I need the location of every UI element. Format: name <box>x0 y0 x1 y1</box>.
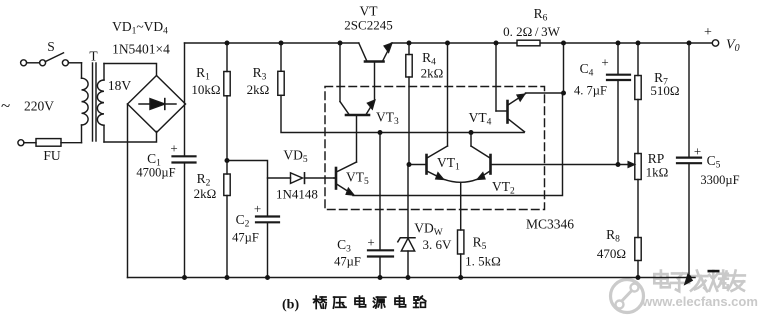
diode VD5 1N4148 <box>276 148 334 202</box>
svg-text:47µF: 47µF <box>232 231 259 245</box>
watermark text dianzifashaoyou <box>654 271 669 288</box>
resistor R4 2k <box>406 43 444 165</box>
svg-text:+: + <box>367 235 374 250</box>
wire top rail left segment <box>185 42 359 44</box>
wire R1/R2 junction to VD5 and C2 <box>227 161 268 217</box>
resistor R5 1.5k <box>458 230 501 278</box>
switch S <box>27 39 69 66</box>
transistor VT5 <box>334 162 369 195</box>
wire VT4 emitter node up to top rail <box>563 43 565 93</box>
svg-text:47µF: 47µF <box>334 255 361 269</box>
wire R7 to RP <box>637 100 639 154</box>
resistor R3 2k <box>247 43 285 97</box>
label VD1~VD4 1N5401x4 <box>112 19 170 57</box>
wire fuse to transformer primary <box>61 142 82 144</box>
svg-text:4. 7µF: 4. 7µF <box>574 84 607 98</box>
transistor VT 2SC2245 <box>344 4 392 62</box>
wire VT4 base up to top rail <box>495 43 497 111</box>
svg-text:2kΩ: 2kΩ <box>421 66 444 81</box>
svg-text:10kΩ: 10kΩ <box>191 82 220 97</box>
wire VT1 VT2 common emitter down to R5 <box>460 182 462 230</box>
ground minus mark bottom right <box>708 270 720 273</box>
svg-text:FU: FU <box>43 148 61 163</box>
capacitor C5 3300uF <box>677 43 740 284</box>
resistor R6 0.2ohm 3W <box>503 6 560 46</box>
svg-text:S: S <box>47 39 55 54</box>
svg-text:2SC2245: 2SC2245 <box>344 18 392 33</box>
svg-text:1kΩ: 1kΩ <box>646 165 669 180</box>
transistor VT1 <box>409 146 477 182</box>
wire VT base down to VT3 emitter <box>374 63 376 100</box>
svg-text:3. 6V: 3. 6V <box>423 237 453 252</box>
svg-text:+: + <box>694 144 701 159</box>
wire ground rail <box>128 277 696 279</box>
svg-text:470Ω: 470Ω <box>597 246 626 261</box>
wire secondary bottom to bridge bottom vertex <box>104 132 157 143</box>
node Vo output terminal <box>704 25 740 54</box>
wire VT2 base to RP wiper with arrow <box>492 162 635 168</box>
bridge rectifier VD1-VD4 diamond <box>128 76 186 133</box>
potentiometer RP 1k <box>635 151 669 180</box>
svg-text:+: + <box>254 201 261 216</box>
svg-text:0. 2Ω / 3W: 0. 2Ω / 3W <box>503 24 560 39</box>
svg-text:2kΩ: 2kΩ <box>194 186 217 201</box>
svg-text:1N5401×4: 1N5401×4 <box>112 42 170 57</box>
wire VT1 collector to top rail <box>447 43 449 146</box>
node AC input terminal top <box>21 60 27 66</box>
wire top rail right segment to Vo <box>392 42 713 44</box>
transformer T primary winding <box>82 63 89 143</box>
svg-text:2kΩ: 2kΩ <box>247 82 270 97</box>
resistor R2 2k <box>194 171 231 278</box>
capacitor C2 47uF <box>232 201 279 278</box>
svg-text:1. 5kΩ: 1. 5kΩ <box>465 254 501 269</box>
svg-text:+: + <box>704 25 712 40</box>
capacitor C3 47uF <box>334 133 393 278</box>
svg-text:VT: VT <box>360 4 379 19</box>
svg-text:220V: 220V <box>24 99 54 114</box>
wire bridge left vertex to ground rail <box>127 104 129 278</box>
svg-text:+: + <box>170 141 177 156</box>
svg-text:1N4148: 1N4148 <box>276 187 318 202</box>
node junction dots top rail <box>182 41 692 281</box>
wire VT2 collector stub to bus y132 <box>470 133 472 147</box>
capacitor C1 4700uF <box>136 141 195 278</box>
fuse FU <box>24 139 61 163</box>
svg-text:www.elecfans.com: www.elecfans.com <box>641 294 758 309</box>
svg-text:(b): (b) <box>282 298 299 313</box>
svg-text:3300µF: 3300µF <box>700 173 739 187</box>
capacitor C4 4.7uF <box>574 43 630 165</box>
resistor R8 470 <box>597 227 641 278</box>
transformer T core <box>89 49 98 142</box>
transistor VT3 <box>340 100 399 127</box>
transistor VT4 <box>469 93 564 132</box>
resistor R1 10k <box>191 43 230 97</box>
wire secondary top to bridge top vertex <box>104 64 157 76</box>
wire switch to transformer primary <box>68 62 81 64</box>
wire VT3 collector to top rail <box>339 43 341 102</box>
wire RP to R8 <box>637 180 639 238</box>
wire VT5 emitter bus to VT4 node <box>353 93 563 196</box>
svg-text:~: ~ <box>1 96 10 115</box>
IC MC3346 dashed box <box>325 87 574 232</box>
bridge inner diode symbol <box>139 99 176 110</box>
svg-text:4700µF: 4700µF <box>136 166 175 180</box>
watermark elecfans logo <box>611 280 644 313</box>
wire VT3 base down to VT5 collector <box>356 116 358 162</box>
node AC input terminal bottom <box>18 140 24 146</box>
svg-text:VD1~VD4: VD1~VD4 <box>112 19 168 37</box>
wire bridge right vertex up to + rail and down to C1 <box>184 43 186 156</box>
svg-text:+: + <box>601 55 608 70</box>
svg-text:MC3346: MC3346 <box>526 217 574 232</box>
transformer T secondary winding 18V <box>97 64 131 143</box>
svg-text:18V: 18V <box>108 78 132 93</box>
zener diode VDW 3.6V <box>398 165 452 278</box>
wire branch to VD5 anode <box>268 177 291 179</box>
svg-text:510Ω: 510Ω <box>650 83 679 98</box>
wire R1 to R2 <box>226 96 228 174</box>
transistor VT2 <box>471 146 515 197</box>
resistor R7 510 <box>635 43 680 100</box>
wire R3 bottom to horizontal bus y132 <box>281 95 524 132</box>
svg-text:T: T <box>89 49 98 64</box>
